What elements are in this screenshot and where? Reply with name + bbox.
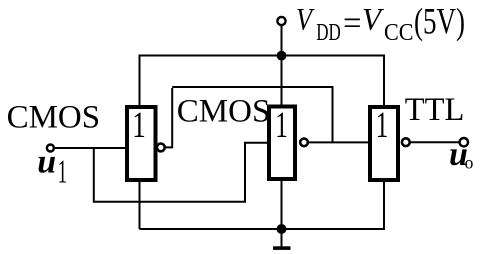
svg-text:1: 1: [58, 154, 68, 191]
svg-text:=: =: [343, 5, 362, 42]
svg-text:1: 1: [275, 105, 288, 146]
svg-text:TTL: TTL: [405, 92, 465, 128]
svg-text:CMOS: CMOS: [177, 94, 270, 130]
svg-text:1: 1: [376, 105, 389, 146]
svg-text:CC: CC: [384, 19, 414, 46]
svg-text:u: u: [37, 143, 56, 180]
svg-text:DD: DD: [316, 19, 341, 46]
svg-text:CMOS: CMOS: [7, 100, 101, 136]
svg-text:o: o: [465, 153, 474, 173]
svg-text:(5V): (5V): [414, 2, 465, 43]
svg-text:1: 1: [132, 105, 146, 146]
